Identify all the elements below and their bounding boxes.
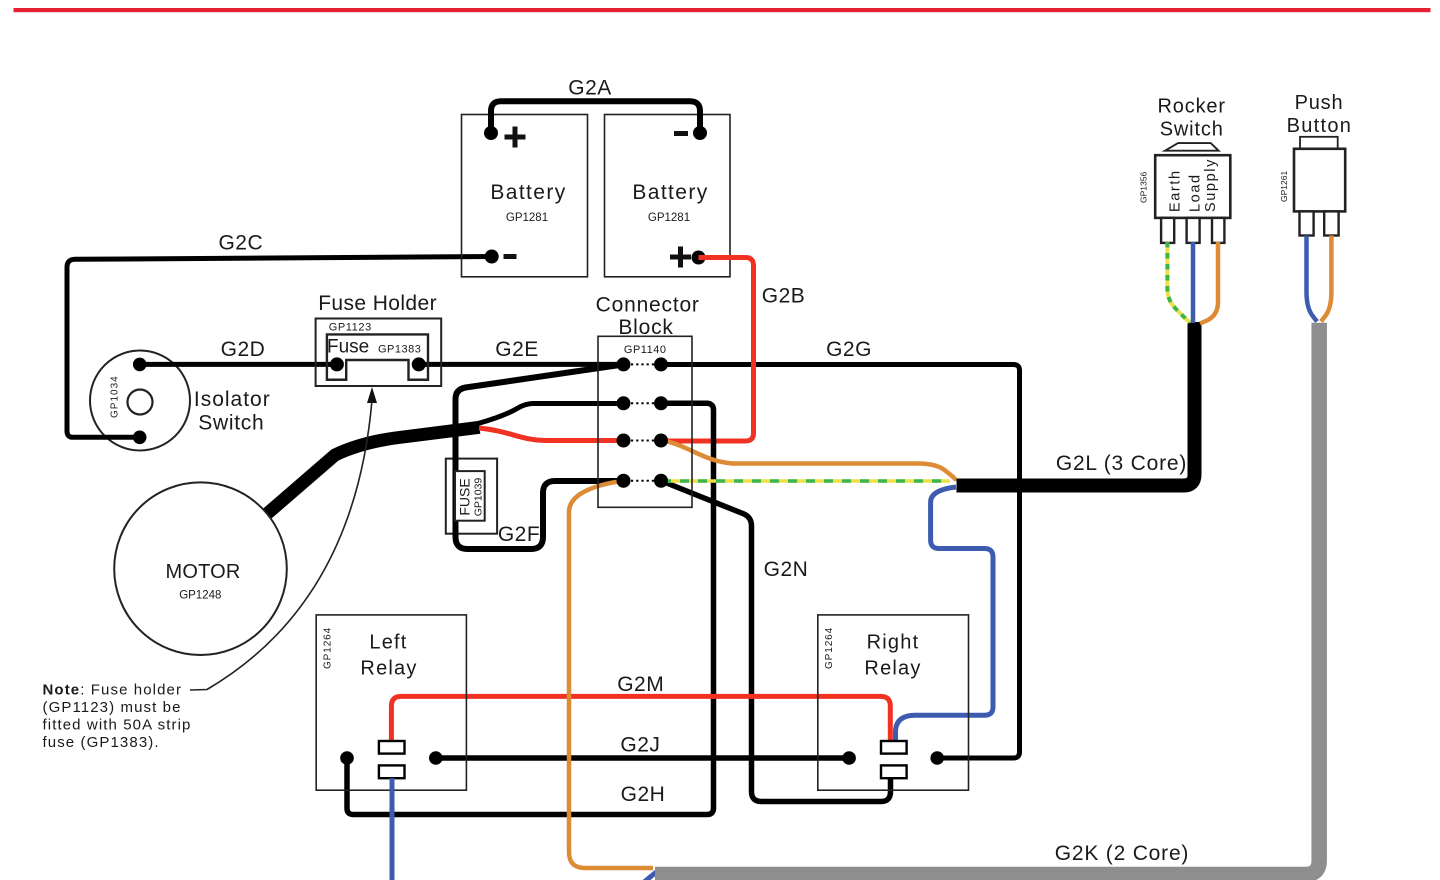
battery1 plus sign <box>505 127 526 148</box>
svg-text:GP1264: GP1264 <box>323 627 334 669</box>
svg-text:(GP1123) must be: (GP1123) must be <box>43 699 182 716</box>
svg-text:G2C: G2C <box>218 232 263 255</box>
earth wire green dashes <box>662 479 950 483</box>
rocker earth wire yellow <box>1167 242 1189 323</box>
battery1 - terminal dot <box>485 250 499 264</box>
wire G2F loop <box>456 364 625 549</box>
wire G2D main horizontal <box>140 362 337 367</box>
svg-text:Push: Push <box>1295 92 1344 114</box>
battery 1 box <box>462 115 588 277</box>
FUSE GP1039 inner box <box>455 471 485 521</box>
wire G2C <box>67 257 492 438</box>
wire G2N <box>661 481 891 802</box>
blue wire from left relay down <box>390 778 395 880</box>
svg-text:GP1039: GP1039 <box>472 478 484 517</box>
svg-text:G2G: G2G <box>826 338 872 361</box>
svg-text:Isolator: Isolator <box>194 388 271 411</box>
wire G2J <box>436 755 849 761</box>
svg-text:GP1281: GP1281 <box>648 212 690 224</box>
battery1 + terminal dot <box>484 126 498 140</box>
motor cable thick <box>261 427 480 519</box>
earth wire yellow <box>662 479 950 483</box>
svg-text:Fuse Holder: Fuse Holder <box>318 292 437 315</box>
svg-text:FUSE: FUSE <box>457 478 473 515</box>
connector dotted links <box>631 364 654 480</box>
isolator inner circle <box>128 390 153 415</box>
left relay left dot <box>340 751 354 765</box>
right relay box <box>818 615 969 790</box>
left relay box <box>316 615 466 790</box>
svg-text:Note: Fuse holder: Note: Fuse holder <box>43 682 183 699</box>
svg-text:Left: Left <box>369 631 407 653</box>
svg-text:GP1383: GP1383 <box>378 344 421 356</box>
svg-text:G2K (2 Core): G2K (2 Core) <box>1055 842 1189 865</box>
battery2 minus sign <box>674 131 688 136</box>
svg-text:Battery: Battery <box>632 181 708 204</box>
isolator top terminal dot <box>133 358 147 372</box>
svg-text:G2M: G2M <box>617 673 664 696</box>
wire G2E <box>419 362 624 367</box>
isolator bottom terminal dot <box>133 431 147 445</box>
left relay bottom terminal <box>379 765 405 778</box>
svg-text:MOTOR: MOTOR <box>165 561 240 583</box>
svg-text:fitted with 50A strip: fitted with 50A strip <box>43 717 192 734</box>
svg-text:G2F: G2F <box>498 523 540 546</box>
push button terminal 1 <box>1300 211 1314 235</box>
svg-text:Battery: Battery <box>490 181 566 204</box>
junction black wire to row2 <box>478 404 624 424</box>
rocker body <box>1155 155 1230 218</box>
battery 2 box <box>605 115 731 277</box>
rocker earth wire green dashes <box>1167 242 1189 323</box>
svg-text:G2J: G2J <box>620 734 660 757</box>
svg-text:Connector: Connector <box>596 293 700 316</box>
fuse holder outer box <box>316 319 442 387</box>
right relay bottom terminal <box>881 765 907 778</box>
svg-text:GP1140: GP1140 <box>624 344 667 356</box>
rocker trapezoid cap <box>1165 143 1219 151</box>
wire G2H <box>347 403 714 814</box>
junction red wire to row3 <box>479 428 624 441</box>
svg-text:Relay: Relay <box>360 658 417 680</box>
rocker terminal 2 <box>1187 218 1200 243</box>
push button cap <box>1300 137 1338 149</box>
svg-text:Switch: Switch <box>198 411 264 434</box>
connector block box <box>598 336 692 507</box>
svg-text:GP1034: GP1034 <box>110 375 121 418</box>
svg-text:G2D: G2D <box>221 338 266 361</box>
fuse holder left terminal dot <box>330 357 344 371</box>
connector terminal dots <box>617 357 669 487</box>
svg-text:G2A: G2A <box>568 76 612 99</box>
svg-text:G2N: G2N <box>764 558 809 581</box>
wire G2B red from battery2 + <box>661 258 754 442</box>
svg-text:GP1248: GP1248 <box>179 590 221 602</box>
svg-text:G2B: G2B <box>762 285 806 308</box>
rocker supply wire orange <box>1200 242 1218 324</box>
fuse strip outline <box>327 334 428 379</box>
svg-text:G2H: G2H <box>621 783 666 806</box>
right relay top terminal <box>881 741 907 754</box>
blue stub at G2K start <box>638 869 660 880</box>
isolator switch body <box>90 351 190 451</box>
svg-text:Right: Right <box>867 631 920 653</box>
svg-text:Supply: Supply <box>1203 158 1219 212</box>
svg-text:Block: Block <box>618 316 673 339</box>
wire G2G with right loop to right relay <box>661 365 1020 759</box>
svg-text:fuse (GP1383).: fuse (GP1383). <box>43 734 160 751</box>
orange wire row3 to G2L <box>661 441 957 482</box>
svg-text:Earth: Earth <box>1167 169 1183 212</box>
fuse holder right terminal dot <box>412 357 426 371</box>
FUSE GP1039 outer box <box>446 459 497 534</box>
svg-text:G2L (3 Core): G2L (3 Core) <box>1056 452 1187 475</box>
blue S wire from G2L to right relay <box>896 487 994 741</box>
right relay right dot <box>930 751 944 765</box>
rocker terminal 1 <box>1161 218 1174 243</box>
svg-text:G2E: G2E <box>495 338 539 361</box>
note leader arrowhead <box>367 387 377 403</box>
left relay top terminal <box>379 741 405 754</box>
cable G2L (3 core) <box>957 322 1195 486</box>
push button blue wire <box>1307 236 1318 322</box>
push button body <box>1294 149 1345 212</box>
svg-text:Switch: Switch <box>1160 119 1224 141</box>
svg-text:Rocker: Rocker <box>1157 96 1225 118</box>
motor circle <box>114 482 287 655</box>
red banner rule <box>14 8 1431 12</box>
svg-text:Relay: Relay <box>864 658 921 680</box>
rocker load wire blue <box>1191 242 1196 323</box>
svg-text:GP1281: GP1281 <box>506 212 548 224</box>
orange wire row4 to bottom cable <box>569 481 653 868</box>
left relay right dot <box>429 751 443 765</box>
cable G2K (2 core) gray <box>655 323 1319 875</box>
battery1 bottom minus sign <box>504 254 517 259</box>
push button terminal 2 <box>1324 211 1338 235</box>
battery2 + terminal dot <box>692 251 706 265</box>
note leader curve <box>190 400 372 690</box>
note text <box>43 682 192 752</box>
battery2 bottom plus sign <box>670 247 691 268</box>
wire G2A <box>491 101 700 133</box>
rocker terminal 3 <box>1212 218 1224 243</box>
right relay left dot <box>842 751 856 765</box>
svg-text:GP1261: GP1261 <box>1279 171 1289 202</box>
wire G2M red <box>391 696 890 741</box>
svg-text:Button: Button <box>1287 115 1353 137</box>
svg-text:GP1356: GP1356 <box>1139 172 1149 203</box>
battery2 - terminal dot <box>693 126 707 140</box>
svg-text:Load: Load <box>1188 173 1204 212</box>
svg-text:GP1264: GP1264 <box>824 627 835 669</box>
svg-text:GP1123: GP1123 <box>329 322 372 334</box>
svg-text:Fuse: Fuse <box>327 337 369 358</box>
push button orange wire <box>1321 236 1331 322</box>
